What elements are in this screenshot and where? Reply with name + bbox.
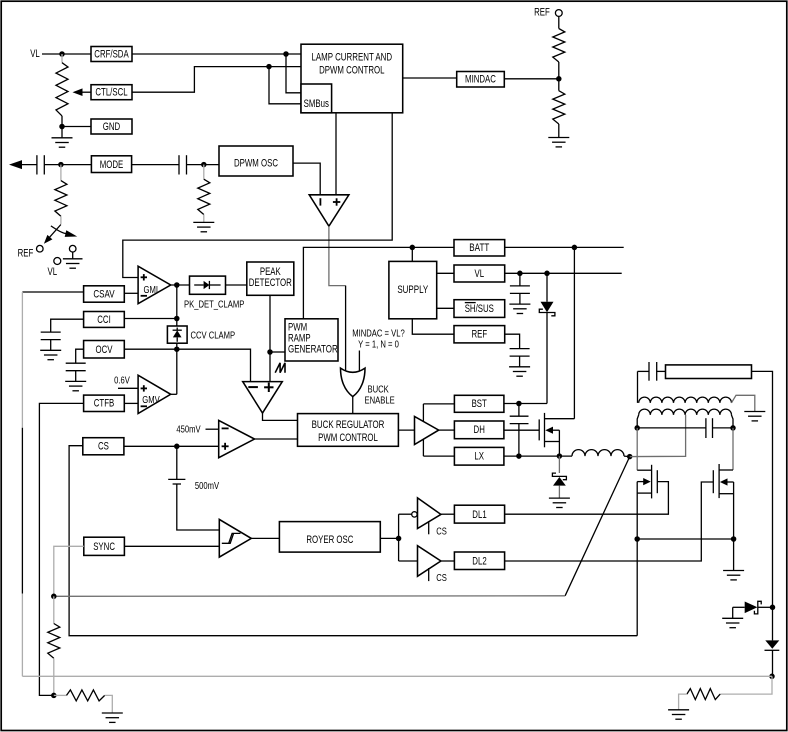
wire secondary to ground (gray) <box>731 395 754 411</box>
pin box CCI <box>84 312 125 328</box>
pin box DL1 <box>454 505 504 523</box>
wire C2 to DPWM OSC <box>187 164 220 166</box>
resistor R4 (REF to MINDAC node) <box>558 16 560 28</box>
svg-text:REF: REF <box>18 247 34 259</box>
svg-text:GENERATOR: GENERATOR <box>288 344 338 356</box>
wire lamp high side <box>752 371 773 607</box>
pin box MODE <box>91 156 131 173</box>
wire schmitt to royer osc <box>251 537 280 539</box>
svg-text:DH: DH <box>474 424 485 436</box>
wire PK_DET_CLAMP to peak detector <box>226 284 247 286</box>
pin box CRF/SDA <box>91 47 132 62</box>
junction primary left <box>634 425 640 431</box>
wire lamp-current feedback to GMI+ <box>123 113 392 278</box>
wire battery to schmitt <box>177 484 219 530</box>
wire CSAV to GMI minus <box>124 292 138 294</box>
svg-text:PWM CONTROL: PWM CONTROL <box>318 432 378 444</box>
junction CTFB/R6/R7 node <box>51 693 57 699</box>
block SUPPLY <box>389 261 437 318</box>
block BUCK REGULATOR PWM CONTROL <box>298 414 399 447</box>
wire MINDAC to REF divider <box>504 78 559 80</box>
junction D3 node <box>770 605 776 611</box>
svg-text:DPWM CONTROL: DPWM CONTROL <box>319 64 384 76</box>
wire BATT rail right <box>505 246 624 248</box>
comparator U2 (DPWM) <box>309 195 349 226</box>
junction sync feedback node <box>51 594 57 600</box>
svg-text:REF: REF <box>471 329 487 341</box>
wire GMV out to OCV node <box>176 349 178 394</box>
schmitt trigger U5 <box>219 519 251 557</box>
svg-text:CS: CS <box>98 441 109 453</box>
transformer T1 primary winding <box>639 409 732 415</box>
resistor R5 (MINDAC node to ground) <box>558 79 560 91</box>
wire VL rail right <box>505 272 622 274</box>
capacitor C5 with ground (VL) <box>519 273 521 286</box>
junction OCV node <box>174 346 180 352</box>
wire DL2 to Q3 gate <box>505 482 714 561</box>
ground (D3 anode) <box>732 607 734 618</box>
wire CCI to bypass cap <box>51 319 84 332</box>
wire buck control to gate driver <box>398 429 414 431</box>
pin box REF <box>454 326 505 343</box>
pin box DL2 <box>454 552 504 570</box>
svg-text:SYNC: SYNC <box>93 541 115 553</box>
pin box BST <box>454 395 504 412</box>
wire node to R8 <box>720 676 772 694</box>
svg-text:VL: VL <box>30 48 40 60</box>
junction R1 bottom / GND <box>59 124 65 130</box>
svg-text:CTL/SCL: CTL/SCL <box>95 87 127 99</box>
junction BST node <box>516 401 522 407</box>
switch arrows to REF/VL select <box>48 225 61 240</box>
wire BATT to Q1 drain <box>573 247 575 418</box>
ground (below R7) <box>102 712 123 714</box>
OR gate BUCK ENABLE <box>341 368 366 397</box>
capacitor C8 (royer resonant) <box>637 427 706 429</box>
junction VL bypass <box>517 271 523 277</box>
sawtooth symbol <box>275 363 285 373</box>
wire CSAV long return (gray bottom) <box>22 675 772 677</box>
transistor Q3 (royer right NFET) <box>732 428 734 470</box>
svg-text:450mV: 450mV <box>176 424 200 435</box>
svg-text:Y = 1, N = 0: Y = 1, N = 0 <box>358 339 399 350</box>
svg-text:REF: REF <box>534 7 550 19</box>
wire U1 to comparator U2 plus <box>335 113 337 195</box>
wire CCV clamp to OCV node <box>176 343 178 349</box>
pin box SH/SUS (overline SH) <box>454 300 505 318</box>
wire VL to CRF/SDA <box>42 53 91 55</box>
terminal ground (selector) <box>69 245 76 252</box>
wire U3 out to buck regulator <box>263 413 298 420</box>
pin box VL <box>454 265 505 282</box>
wire CTL/SCL to lamp control block <box>132 67 301 93</box>
wire royer out <box>380 537 398 539</box>
svg-text:CSAV: CSAV <box>93 288 115 300</box>
wire royer sync diagonal <box>565 457 630 596</box>
wire U1 to MINDAC <box>403 77 457 79</box>
wire BST row <box>504 403 547 405</box>
svg-text:ROYER OSC: ROYER OSC <box>306 534 353 546</box>
svg-text:CCI: CCI <box>97 314 111 326</box>
svg-text:SMBus: SMBus <box>304 98 330 110</box>
battery 500mV offset <box>176 446 178 479</box>
wire MODE output arrow (to external) <box>19 164 37 166</box>
junction CCI node <box>174 316 180 322</box>
wire U2 output to OR gate (gray) <box>329 226 346 285</box>
wire driver to DH <box>439 429 455 431</box>
svg-text:CCV CLAMP: CCV CLAMP <box>191 330 236 341</box>
transistor Q2 (royer left NFET) <box>636 428 638 470</box>
junction Q3 source <box>731 536 737 542</box>
svg-text:DL2: DL2 <box>472 556 486 568</box>
wire MINDAC compare to OR gate <box>358 351 360 373</box>
block MINDAC <box>457 72 505 88</box>
transistor Q1 (buck high-side NFET) <box>538 419 540 440</box>
wire CSAV feedback (left long loop) <box>22 291 83 293</box>
capacitor C6 with ground (REF) <box>510 348 530 350</box>
svg-text:PK_DET_CLAMP: PK_DET_CLAMP <box>184 300 245 311</box>
block ROYER OSC <box>279 522 380 553</box>
wire SCL tap to SMBus <box>269 67 301 104</box>
svg-text:BUCK: BUCK <box>368 385 389 396</box>
transformer T1 secondary winding <box>639 397 732 403</box>
wire OCV to bypass cap <box>76 349 84 363</box>
wire GND <box>62 126 91 128</box>
ground (below R1) <box>61 127 63 138</box>
pin box OCV <box>84 341 125 359</box>
svg-text:CRF/SDA: CRF/SDA <box>94 48 129 60</box>
junction CS node <box>174 444 180 450</box>
svg-text:DETECTOR: DETECTOR <box>249 277 292 289</box>
svg-text:OCV: OCV <box>96 344 113 356</box>
svg-text:SH/SUS: SH/SUS <box>465 303 494 315</box>
svg-text:VL: VL <box>475 268 485 280</box>
svg-text:0.6V: 0.6V <box>114 375 130 386</box>
wire to DL1/DL2 drivers <box>398 514 400 561</box>
wire SDA tap to SMBus <box>286 54 301 93</box>
wire to SUPPLY block <box>411 247 413 261</box>
resistor R3 (MODE select, gray) <box>60 165 62 181</box>
comparator U3 (PWM, pointing down) <box>243 382 283 413</box>
junction VL diode <box>544 271 550 277</box>
wire CTFB feedback loop (left) <box>39 403 83 695</box>
wire ramp gen to node <box>270 351 285 353</box>
junction VL/R1 <box>59 51 65 57</box>
clamp CCV CLAMP (diode box) <box>167 326 187 343</box>
svg-text:LAMP CURRENT AND: LAMP CURRENT AND <box>312 51 393 63</box>
pin box GND <box>91 119 132 134</box>
svg-text:MODE: MODE <box>100 159 124 171</box>
op-amp GMI <box>138 266 171 304</box>
junction DPWM node <box>201 162 207 168</box>
svg-text:GMI: GMI <box>144 285 159 296</box>
wire CS feedback loop (left) <box>69 446 637 636</box>
svg-text:500mV: 500mV <box>195 481 219 492</box>
ground (Q3 source) <box>723 570 744 572</box>
wire GMI out <box>171 284 190 286</box>
wire CCI to node <box>124 318 177 320</box>
wire DL1 to Q2 gate <box>505 482 669 515</box>
svg-text:CTFB: CTFB <box>94 398 115 410</box>
svg-text:DL1: DL1 <box>472 509 486 521</box>
junction BATT rail <box>572 245 578 251</box>
schottky diode D3 (feedback rectifier) <box>733 606 745 608</box>
junction L1 / center-tap node <box>627 454 633 460</box>
svg-text:GND: GND <box>103 121 120 133</box>
wire U7 to DL2 <box>441 560 455 562</box>
junction royer drive node <box>396 536 402 542</box>
driver U6 (DL1, inverting) <box>412 512 417 517</box>
junction SDA tap <box>283 51 289 57</box>
capacitor C3 with ground (CCI) <box>41 331 61 333</box>
wire SYNC left to royer feedback node <box>54 546 84 596</box>
capacitor C4 with ground (OCV) <box>66 362 86 364</box>
resistor R6 (sync divider) <box>53 596 55 623</box>
wiper arrow into R1 <box>78 91 91 93</box>
wire CS row <box>124 445 219 447</box>
junction Q2 source <box>634 536 640 542</box>
wire center tap (gray) <box>630 415 686 457</box>
wire U6 to DL1 <box>441 513 455 515</box>
comparator U4 (450mV) <box>219 420 255 457</box>
wire OCV row to PWM comparator minus <box>124 349 250 381</box>
svg-text:GMV: GMV <box>142 395 160 406</box>
ground (below R2) <box>193 221 214 223</box>
capacitor C7 (bootstrap BST-LX) <box>518 404 520 417</box>
op-amp GMV <box>138 375 171 413</box>
capacitor C2 (series to DPWM OSC) <box>178 155 180 174</box>
ground (below R5) <box>548 137 569 139</box>
block DPWM OSC <box>219 146 293 176</box>
junction LX node 2 <box>557 453 563 459</box>
wire SUPPLY to SH/SUS <box>437 307 454 309</box>
wire driver fan BST/LX <box>422 404 424 456</box>
pin box CS <box>83 438 124 455</box>
junction LX node 1 <box>516 453 522 459</box>
junction MINDAC node <box>556 76 562 82</box>
svg-text:MINDAC: MINDAC <box>465 73 496 85</box>
wire REF to bypass cap <box>505 334 520 348</box>
pin box BATT <box>454 240 505 256</box>
wire OR gate to buck regulator <box>352 397 354 414</box>
wire BATT rail to PWM ramp generator <box>303 247 454 318</box>
pin box LX <box>454 447 504 465</box>
svg-text:SUPPLY: SUPPLY <box>397 284 428 296</box>
pin box DH <box>454 421 504 439</box>
wire CTFB to GMV minus <box>124 402 138 404</box>
svg-text:BUCK REGULATOR: BUCK REGULATOR <box>312 419 385 431</box>
junction primary right <box>730 425 736 431</box>
junction CSAV return node <box>769 674 775 680</box>
wire SYNC to schmitt <box>124 545 218 547</box>
wire MODE to C2 <box>132 164 179 166</box>
wire DPWM OSC to comparator U2 <box>293 163 320 195</box>
ground (below R8) <box>668 709 689 711</box>
wire CRF/SDA to lamp control block <box>132 53 301 55</box>
svg-text:ENABLE: ENABLE <box>365 396 395 407</box>
svg-text:CS: CS <box>436 573 447 584</box>
svg-text:VL: VL <box>48 266 58 278</box>
resistor R8 (current sense) <box>687 689 720 700</box>
gate driver U8 <box>415 416 439 444</box>
pin box CTFB <box>84 395 125 411</box>
svg-text:MINDAC = VL?: MINDAC = VL? <box>352 329 405 340</box>
junction MODE node <box>58 162 64 168</box>
clamp diode box PK_DET_CLAMP <box>190 276 226 294</box>
ground (below D2) <box>549 497 570 499</box>
wire D4 to CSAV return node <box>772 650 774 676</box>
schottky diode D2 (LX freewheel) <box>558 456 560 473</box>
svg-text:BATT: BATT <box>469 242 489 254</box>
capacitor C9 (lamp ballast) <box>638 370 650 372</box>
schottky diode D1 (VL to BST) <box>546 273 548 302</box>
wire LX row <box>504 455 572 457</box>
pin box CTL/SCL <box>91 85 132 100</box>
wire SUPPLY to REF <box>412 319 454 334</box>
wire U4 out <box>255 438 298 440</box>
wire DH to Q1 gate <box>504 429 539 431</box>
svg-text:CS: CS <box>436 526 447 537</box>
pin box SYNC <box>84 537 125 555</box>
resistor R7 (to ground) <box>54 694 67 696</box>
block U1 LAMP CURRENT AND DPWM CONTROL <box>301 44 403 113</box>
junction SCL tap <box>266 64 272 70</box>
wire C1 to MODE <box>44 164 91 166</box>
wire right rail to D4 <box>772 607 774 640</box>
block PEAK DETECTOR <box>247 262 294 295</box>
diode D4 (vertical on right rail) <box>765 640 779 648</box>
pin box CSAV <box>84 286 125 302</box>
block PWM RAMP GENERATOR <box>285 319 338 361</box>
wire peak detector to PWM comparator plus <box>269 295 271 381</box>
resistor R1 (VL divider, with wiper) <box>61 54 63 63</box>
inductor L1 (buck) <box>572 450 624 456</box>
junction SUPPLY feed <box>410 245 416 251</box>
block SMBus interface <box>301 84 332 113</box>
driver U7 (DL2) <box>418 546 441 577</box>
junction ramp node <box>267 349 273 355</box>
lamp (CCFL tube) <box>666 365 752 379</box>
wire royer common source <box>637 538 733 540</box>
capacitor C1 (MODE left, series) <box>36 155 38 174</box>
resistor R2 (DPWM node to ground) <box>203 165 205 180</box>
svg-text:BST: BST <box>472 398 487 410</box>
wire SUPPLY to VL <box>437 272 454 274</box>
junction GMI output node <box>174 282 180 288</box>
svg-text:LX: LX <box>474 451 484 463</box>
svg-text:DPWM OSC: DPWM OSC <box>234 158 278 170</box>
wire GMI node down CCV clamp chain <box>176 285 178 326</box>
ground (secondary return) <box>744 411 765 413</box>
